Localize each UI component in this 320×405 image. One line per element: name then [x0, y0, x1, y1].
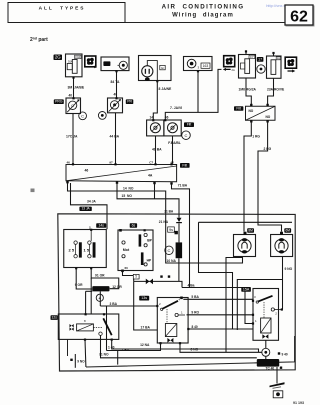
svg-text:14 NO: 14 NO [123, 187, 134, 191]
pin box K top [90, 229, 92, 231]
pin 9 NO corner [70, 359, 72, 361]
wire 91 OR box K pin2 [91, 268, 119, 289]
wire blower resistor to earth [276, 367, 278, 384]
svg-text:5: 5 [135, 275, 137, 279]
fan icon top-left [85, 56, 96, 67]
svg-text:13s: 13s [141, 296, 147, 300]
svg-text:1M6 RG/2A: 1M6 RG/2A [239, 87, 257, 91]
diode D1 [146, 279, 153, 285]
earth designation box [273, 391, 283, 398]
wire circle A to blower resistor [265, 356, 267, 359]
svg-text:17: 17 [258, 58, 262, 62]
wire capacitor down to diode net [178, 258, 180, 281]
wire right fan motor down [282, 257, 284, 310]
sensor box right-center [184, 57, 213, 71]
wire 2 RG to right fan motor [258, 121, 282, 231]
pin fan motor left top [244, 232, 247, 235]
blower resistor block [246, 106, 276, 120]
svg-text:Mot: Mot [123, 248, 130, 252]
earth symbol [270, 382, 285, 387]
fuse box F8 [267, 56, 282, 78]
pin box L top left [119, 229, 122, 232]
wire 17C JA actuator to rheostat [72, 114, 74, 165]
svg-text:Filt: Filt [187, 123, 192, 127]
pin fuse F8 top [272, 52, 274, 54]
connector label PRG left [54, 99, 64, 104]
connector label Filt right of wedge [180, 163, 190, 168]
wire 5 BA box O to relay N [183, 299, 253, 300]
svg-text:17 BA: 17 BA [141, 325, 151, 329]
pin 9 40 near circle A [278, 352, 280, 354]
svg-text:BP: BP [147, 239, 152, 243]
svg-text:F.BA/BL: F.BA/BL [168, 141, 181, 145]
fan motor box left [234, 235, 256, 257]
wire 23A RO/VE fuse F8 down [268, 79, 274, 105]
svg-text:3M JA/BE: 3M JA/BE [68, 85, 85, 89]
svg-text:40: 40 [69, 94, 73, 98]
svg-text:91 193: 91 193 [293, 401, 304, 405]
wire 14 NO / 21 NA / 10 NA net [68, 183, 243, 263]
pin sensor box D bottom [197, 70, 199, 72]
svg-text:1 5: 1 5 [84, 247, 90, 252]
svg-text:60: 60 [125, 266, 129, 270]
blower resistor black body bottom [257, 359, 279, 367]
svg-text:46: 46 [85, 169, 89, 173]
svg-text:8 JA/NE: 8 JA/NE [159, 87, 173, 91]
svg-text:91 OR: 91 OR [95, 274, 105, 278]
connector label between fuses [257, 57, 264, 62]
wire fan relay branch [237, 280, 282, 331]
wire F BA/BL J-right to rheostat [172, 136, 174, 164]
svg-text:71 NO: 71 NO [99, 352, 109, 356]
pin motor box bottom [156, 80, 158, 82]
wire 1 RG to left fan motor [244, 121, 251, 231]
svg-text:12s: 12s [51, 316, 57, 320]
wire 9 RO box O to relay N [187, 314, 254, 316]
pin resistor block top 1 [250, 104, 252, 106]
svg-text:8 NO: 8 NO [191, 347, 199, 351]
marker circle A [262, 348, 270, 356]
pin wedge bottom b [116, 181, 118, 183]
svg-text:97: 97 [109, 161, 113, 165]
stub left of 9 NO [74, 354, 76, 368]
svg-text:NO: NO [266, 115, 271, 119]
wire 9 NO box M to ground rail [84, 340, 87, 367]
svg-text:5 BA: 5 BA [191, 295, 199, 299]
pressure switch box L [118, 230, 153, 271]
wire 15 NO net [117, 183, 179, 218]
svg-text:PRG: PRG [55, 100, 63, 104]
pin wedge bottom a [66, 181, 68, 183]
thermo circle below Filt [182, 131, 191, 140]
wire 1 40 down [106, 306, 108, 351]
ballast resistor black body [92, 286, 109, 291]
svg-text:7. JA/VI: 7. JA/VI [170, 106, 182, 110]
wire 3M JA/BE fuse to actuator [73, 77, 75, 98]
svg-text:21 BA: 21 BA [164, 210, 174, 214]
fuse box F10 unit [66, 54, 83, 77]
wire 71 BA net [172, 184, 190, 288]
wire 84 TA sensor to actuator [116, 71, 118, 98]
svg-text:15 NO: 15 NO [122, 194, 133, 198]
pin resistor block bottom 2 [266, 120, 268, 122]
connector label 13 JA [79, 207, 91, 211]
stub fuse F7 top [245, 52, 247, 55]
wire diode net horizontal [134, 281, 182, 287]
title box ALL TYPES [8, 3, 125, 23]
fuse box F7 [239, 55, 256, 79]
wire resistor left horiz [86, 290, 93, 292]
wire 8 NO box O to blower resistor [180, 343, 262, 352]
pin fan motor right top [280, 232, 283, 235]
wire box K pin2 branch to relay M [90, 278, 92, 314]
wire resistor bottom to circle 4 [99, 291, 101, 306]
actuator box right [108, 98, 123, 113]
wire 17 BA branch [134, 281, 158, 330]
connector label 2G [54, 55, 63, 61]
pin box K bottom 2 [90, 267, 92, 269]
compressor icon top-middle [224, 56, 235, 67]
relay box K [64, 230, 107, 268]
connector label 13s [139, 296, 149, 301]
wire 12 NA box O bottom [107, 343, 161, 350]
stub fuse F8 top [273, 53, 275, 56]
connector label 15A [241, 287, 251, 292]
wire from wedge pin C7 down [154, 184, 156, 199]
wire 7 JA/VI sensor to switch-pack [197, 71, 199, 113]
relay box M [58, 314, 119, 339]
switch unit J left [147, 120, 164, 136]
wire 3 BA to blower switch [100, 305, 157, 307]
wire 4 BA to relay N [182, 288, 253, 324]
relay box N [253, 289, 279, 341]
pin wedge bottom c [153, 182, 155, 184]
connector label PRG right [126, 99, 134, 104]
wire 1 BA box M arm to blower resistor [112, 340, 259, 353]
thermal fuse symbol [177, 218, 182, 222]
wire 3M RG/2A fuse F7 down [246, 78, 251, 104]
svg-text:12 NA: 12 NA [140, 343, 150, 347]
wire left fan motor to blower feed [226, 258, 243, 353]
pin J left top [152, 119, 154, 121]
pin fuse A bottom [72, 77, 74, 79]
connector label Filt upper [184, 122, 194, 127]
thermo sensor circle right [98, 112, 106, 120]
svg-text:48 BA: 48 BA [152, 147, 162, 151]
svg-text:Gr: Gr [161, 66, 164, 70]
connector label 12s [51, 315, 58, 320]
pin J right top [164, 119, 166, 121]
svg-text:Wiring diagram: Wiring diagram [172, 13, 234, 19]
header frame line [8, 22, 313, 24]
svg-text:30A: 30A [68, 59, 73, 63]
motor box left-center [139, 56, 172, 81]
pin box N left low [252, 322, 254, 324]
wire thermal fuse to capacitor [178, 223, 180, 242]
svg-text:71 BA: 71 BA [178, 183, 188, 187]
inner GMV box left edge path [199, 222, 233, 329]
pin resistor block bottom 1 [250, 120, 252, 122]
svg-text:Filt: Filt [182, 164, 187, 168]
label box 9s [168, 227, 175, 232]
pin crossing b [168, 275, 170, 277]
svg-text:46: 46 [165, 116, 169, 120]
pin box N right [281, 308, 283, 310]
svg-text:2G: 2G [55, 55, 61, 60]
pin box L bottom [121, 270, 124, 273]
pin actuator left top [72, 97, 74, 99]
svg-text:23A RO/VE: 23A RO/VE [267, 87, 285, 91]
marker circle C mid [165, 246, 173, 254]
inner GMV box top edge [199, 221, 293, 223]
svg-text:17C JA: 17C JA [66, 134, 78, 138]
svg-text:14s: 14s [98, 224, 104, 228]
svg-text:C: C [168, 248, 171, 253]
svg-text:9 40: 9 40 [282, 352, 288, 356]
pin actuator right top [115, 97, 117, 99]
inner enclosure bottom line [86, 336, 295, 367]
connector label 6s [130, 223, 137, 228]
svg-text:44 BA: 44 BA [110, 134, 120, 138]
svg-text:ALL TYPES: ALL TYPES [39, 6, 86, 12]
svg-text:2 5: 2 5 [69, 247, 75, 252]
svg-text:2 RG: 2 RG [264, 147, 272, 151]
pin resistor block top 2 [266, 104, 268, 106]
connector label 14s [96, 223, 106, 228]
svg-text:40: 40 [114, 92, 118, 96]
pin box M bottom 2 [111, 339, 113, 341]
switch unit J right [164, 120, 181, 136]
svg-text:9 OR: 9 OR [75, 283, 83, 287]
capacitor black body [176, 242, 183, 258]
svg-text:10 NA: 10 NA [167, 259, 177, 263]
rheostat resistor wedge [66, 165, 177, 182]
pin fuse F7 top [245, 50, 247, 52]
svg-text:HP: HP [147, 259, 152, 263]
washer symbol between fuses [257, 65, 265, 73]
svg-text:F10: F10 [75, 55, 80, 59]
marker circle 4 [96, 294, 103, 301]
battery icon top-right [285, 57, 296, 68]
wire 12 NA continue down [117, 351, 119, 365]
wire 34 JA net [71, 183, 108, 229]
svg-text:15A: 15A [243, 288, 250, 292]
blower switch box O [157, 298, 188, 344]
connector label 6M [284, 228, 291, 232]
sensor box 230 [101, 57, 129, 71]
label box 5 [133, 274, 139, 279]
pin box O left [156, 305, 158, 307]
pin box N left top [252, 300, 254, 302]
pin wedge top 3 [154, 163, 156, 165]
pin sensor box bottom [115, 70, 117, 72]
pin wedge bottom d [170, 182, 172, 184]
connector label Filt fuse block [234, 106, 243, 111]
svg-text:8M: 8M [248, 228, 253, 232]
svg-text:9 RO: 9 RO [191, 311, 199, 315]
svg-text:9 NO: 9 NO [77, 359, 85, 363]
svg-text:12 OR: 12 OR [112, 285, 122, 289]
wire 44 BA actuator to rheostat [115, 113, 117, 164]
pin wedge top 4 [170, 163, 172, 165]
stray mark left margin [31, 189, 35, 193]
svg-text:3 BA: 3 BA [110, 302, 118, 306]
svg-text:NO: NO [249, 109, 254, 113]
svg-text:34 JA: 34 JA [87, 200, 96, 204]
wire 48 BA J-left to rheostat [155, 136, 157, 164]
svg-text:AIR CONDITIONING: AIR CONDITIONING [162, 4, 245, 11]
svg-text:C: C [185, 133, 188, 138]
pin wedge top 2 [114, 163, 116, 165]
svg-text:PR: PR [127, 100, 132, 104]
pin box O right edge [187, 328, 189, 330]
pin beside 9s [175, 231, 178, 234]
svg-text:F7: F7 [250, 55, 254, 59]
svg-text:9 NO: 9 NO [285, 267, 293, 271]
svg-text:1 RG: 1 RG [252, 134, 260, 138]
connector label 8M [247, 228, 254, 232]
svg-text:1 BA: 1 BA [122, 348, 130, 352]
pin TC40 [280, 367, 282, 369]
wire 9 OR box K to junction [76, 268, 92, 289]
pin box N left mid [252, 314, 254, 316]
svg-text:6s: 6s [132, 224, 136, 228]
wire box L pin to diode net [123, 271, 134, 282]
wire from compressor arrow to switch-pack [165, 69, 221, 119]
pin box L top right [144, 229, 146, 231]
actuator box left [66, 98, 81, 114]
svg-text:Filt: Filt [236, 107, 241, 111]
pin box M arm top [103, 313, 105, 315]
HVAC unit enclosure box [58, 214, 295, 371]
wire resistor left up [85, 291, 87, 314]
svg-text:C: C [81, 113, 84, 118]
svg-text:4A: 4A [148, 174, 153, 178]
svg-text:4 Ba: 4 Ba [188, 284, 195, 288]
pin wedge top 1 [72, 163, 74, 165]
wire 8 40 box O to relay N coil [188, 328, 253, 330]
svg-text:6M: 6M [285, 228, 290, 232]
wire 71 NO box M contact [101, 335, 257, 357]
svg-text:14: 14 [150, 116, 154, 120]
pin box O bottom 2 [179, 342, 181, 344]
svg-text:84 TA: 84 TA [111, 80, 121, 84]
pin box O top [180, 297, 183, 300]
svg-text:TC 40: TC 40 [266, 367, 275, 371]
svg-text:21 NA: 21 NA [159, 220, 169, 224]
pin box M top [85, 313, 87, 315]
pin box M bottom 1 [84, 339, 86, 341]
page number box 62 [286, 6, 314, 26]
pin box O bottom 1 [159, 342, 161, 344]
svg-text:2nd part: 2nd part [30, 37, 48, 44]
svg-text:9s: 9s [169, 227, 173, 232]
svg-text:46: 46 [67, 161, 71, 165]
wire 8 JA/NE motor to switch-pack [153, 81, 157, 120]
wire box N coil to circle A [265, 340, 267, 348]
svg-text:2A: 2A [232, 68, 235, 72]
svg-text:13 JA: 13 JA [82, 207, 91, 211]
thermo sensor circle left [79, 112, 87, 120]
svg-text:62: 62 [290, 9, 308, 26]
fan motor box right [271, 235, 293, 257]
pin box K bottom 1 [75, 267, 77, 269]
pin crossing a [160, 275, 162, 277]
svg-text:163: 163 [203, 64, 209, 68]
svg-text:C7: C7 [149, 161, 153, 165]
